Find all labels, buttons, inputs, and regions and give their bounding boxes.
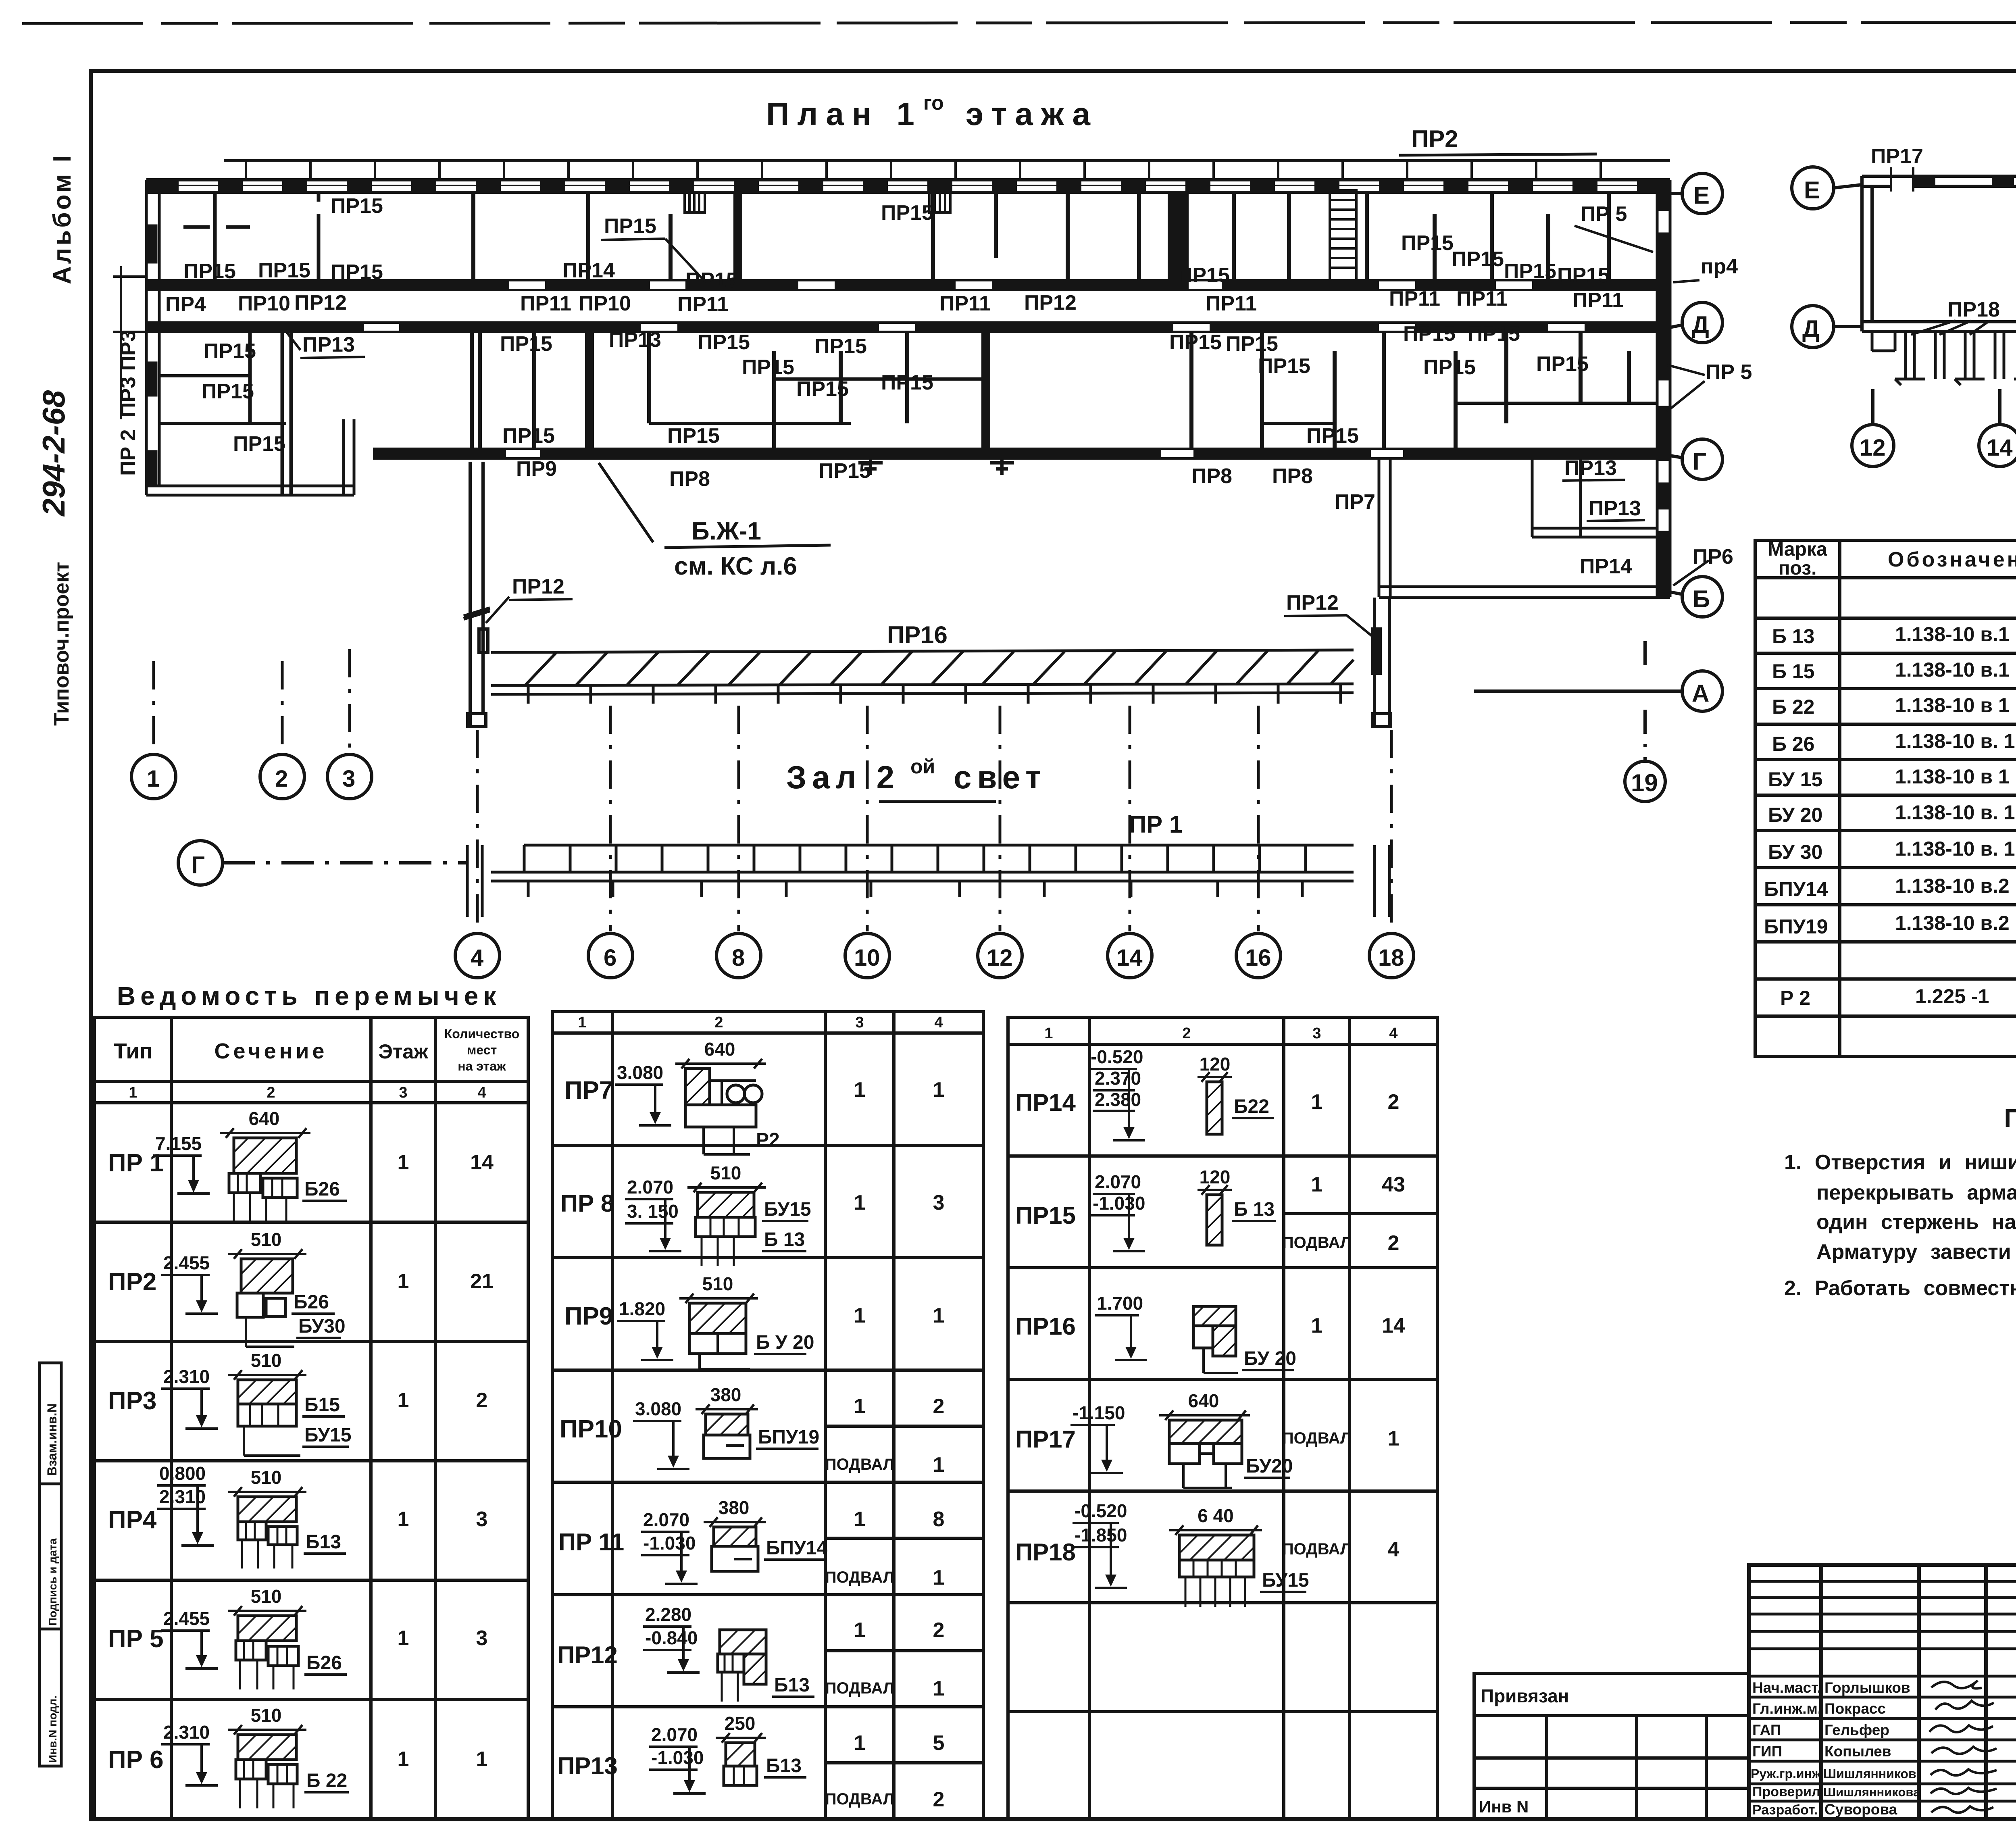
svg-text:Примечания:: Примечания: bbox=[2004, 1104, 2016, 1133]
svg-text:Б 22: Б 22 bbox=[306, 1770, 347, 1791]
svg-text:ПР15: ПР15 bbox=[331, 194, 383, 218]
svg-text:1: 1 bbox=[933, 1453, 945, 1477]
svg-text:ПР11: ПР11 bbox=[1572, 289, 1624, 312]
svg-text:1.138-10 в.1: 1.138-10 в.1 bbox=[1895, 623, 2010, 646]
row PR16 bbox=[1015, 1293, 1405, 1373]
svg-text:Б 26: Б 26 bbox=[1772, 733, 1814, 755]
table2 PR7-PR13 grid bbox=[552, 1012, 983, 1819]
wall left outer bbox=[146, 180, 159, 495]
svg-text:1.138-10 в 1: 1.138-10 в 1 bbox=[1895, 765, 2010, 788]
svg-text:Проверил: Проверил bbox=[1752, 1784, 1820, 1800]
row PR17 bbox=[1015, 1390, 1399, 1488]
basement outer walls bbox=[1862, 176, 2016, 331]
svg-text:БУ15: БУ15 bbox=[1262, 1570, 1309, 1591]
svg-text:ПР13: ПР13 bbox=[1589, 497, 1641, 520]
svg-text:380: 380 bbox=[719, 1497, 750, 1518]
svg-text:мест: мест bbox=[467, 1043, 497, 1057]
svg-text:120: 120 bbox=[1200, 1166, 1231, 1187]
svg-text:ПР14: ПР14 bbox=[562, 259, 615, 282]
row PR12 bbox=[557, 1604, 944, 1702]
svg-text:ПР15: ПР15 bbox=[1468, 322, 1520, 346]
svg-text:4: 4 bbox=[471, 945, 483, 971]
svg-text:ПОДВАЛ: ПОДВАЛ bbox=[825, 1790, 894, 1808]
basement pilasters bbox=[1872, 331, 2016, 385]
svg-text:294-2-68: 294-2-68 bbox=[36, 390, 71, 517]
partitions band1 left block bbox=[183, 192, 319, 280]
labels band2 bbox=[202, 322, 1589, 483]
svg-text:21: 21 bbox=[470, 1270, 494, 1293]
svg-text:2: 2 bbox=[933, 1788, 945, 1811]
svg-text:2.070: 2.070 bbox=[1095, 1171, 1141, 1192]
svg-text:БУ 20: БУ 20 bbox=[1768, 804, 1822, 826]
column cross 12 bbox=[990, 451, 1014, 475]
svg-text:1: 1 bbox=[129, 1084, 137, 1101]
axis circle A bbox=[1474, 671, 1722, 711]
axis circle G left bbox=[178, 841, 468, 885]
svg-text:Горлышков: Горлышков bbox=[1824, 1679, 1910, 1696]
svg-text:2: 2 bbox=[933, 1395, 945, 1418]
svg-text:Шишлянникова: Шишлянникова bbox=[1823, 1785, 1920, 1799]
row PR6 bbox=[108, 1705, 487, 1808]
svg-text:510: 510 bbox=[702, 1273, 733, 1294]
svg-text:ПР15: ПР15 bbox=[796, 377, 849, 401]
svg-text:2.280: 2.280 bbox=[645, 1604, 691, 1625]
svg-text:18: 18 bbox=[1378, 945, 1404, 971]
svg-text:БУ20: БУ20 bbox=[1246, 1456, 1293, 1477]
svg-text:3. 150: 3. 150 bbox=[627, 1201, 679, 1222]
svg-text:ПР11: ПР11 bbox=[1456, 287, 1508, 310]
svg-text:ПР12: ПР12 bbox=[294, 291, 347, 315]
svg-text:ПР15: ПР15 bbox=[1177, 264, 1230, 287]
svg-text:Е: Е bbox=[1693, 182, 1710, 209]
axis circle E basement bbox=[1792, 167, 1862, 209]
svg-text:1.225 -1: 1.225 -1 bbox=[1915, 985, 1989, 1008]
svg-text:8: 8 bbox=[732, 945, 745, 971]
row PR15 bbox=[1015, 1166, 1405, 1255]
svg-text:Обозначение: Обозначение bbox=[1888, 548, 2016, 571]
stair hatch vent B bbox=[929, 192, 950, 212]
svg-text:ПР15: ПР15 bbox=[881, 201, 933, 225]
svg-text:ПР8: ПР8 bbox=[1272, 464, 1313, 488]
svg-text:БУ 30: БУ 30 bbox=[1768, 841, 1822, 863]
svg-text:1.138-10 в.2: 1.138-10 в.2 bbox=[1895, 912, 2010, 934]
svg-text:510: 510 bbox=[251, 1229, 282, 1250]
svg-text:ПР15: ПР15 bbox=[1015, 1202, 1076, 1229]
svg-text:43: 43 bbox=[1382, 1173, 1405, 1196]
row PR1 bbox=[108, 1108, 494, 1222]
svg-text:Покрасс: Покрасс bbox=[1824, 1700, 1886, 1717]
wall left block right edge bbox=[344, 419, 354, 495]
labels left block top bbox=[165, 291, 347, 316]
svg-text:14: 14 bbox=[1382, 1314, 1405, 1337]
row PR4 bbox=[108, 1463, 487, 1568]
svg-text:БПУ14: БПУ14 bbox=[1764, 878, 1828, 900]
svg-text:1: 1 bbox=[398, 1508, 409, 1531]
svg-text:640: 640 bbox=[249, 1108, 280, 1129]
svg-text:1.138-10 в.2: 1.138-10 в.2 bbox=[1895, 875, 2010, 897]
svg-text:ГАП: ГАП bbox=[1752, 1722, 1781, 1738]
svg-text:8: 8 bbox=[933, 1508, 945, 1531]
svg-text:Б13: Б13 bbox=[766, 1755, 802, 1777]
svg-text:1: 1 bbox=[854, 1078, 866, 1102]
svg-text:2: 2 bbox=[1182, 1025, 1191, 1042]
svg-text:ПР17: ПР17 bbox=[1871, 145, 1923, 168]
svg-text:ПР 5: ПР 5 bbox=[108, 1625, 164, 1653]
svg-text:Б 15: Б 15 bbox=[1772, 660, 1814, 683]
svg-text:ПР15: ПР15 bbox=[1258, 354, 1310, 378]
svg-text:1: 1 bbox=[854, 1618, 866, 1642]
spec table Marka poz bbox=[1755, 539, 2016, 1056]
svg-text:ПР12: ПР12 bbox=[557, 1641, 618, 1668]
row PR13 bbox=[557, 1713, 944, 1811]
svg-text:2.370: 2.370 bbox=[1095, 1068, 1141, 1089]
svg-text:Б.Ж-1: Б.Ж-1 bbox=[691, 517, 761, 545]
svg-text:Тип: Тип bbox=[114, 1039, 153, 1063]
svg-text:ПР15: ПР15 bbox=[1403, 322, 1456, 346]
svg-text:3: 3 bbox=[476, 1508, 488, 1531]
svg-text:Количество: Количество bbox=[444, 1027, 520, 1041]
stair hatch vent A bbox=[685, 192, 705, 212]
svg-text:Копылев: Копылев bbox=[1824, 1743, 1891, 1760]
svg-text:Б У 20: Б У 20 bbox=[756, 1332, 814, 1353]
svg-text:510: 510 bbox=[710, 1162, 741, 1183]
partitions band2 left block bbox=[250, 332, 291, 495]
svg-text:ПР15: ПР15 bbox=[604, 215, 656, 238]
svg-text:510: 510 bbox=[251, 1467, 282, 1488]
axis circle D basement bbox=[1792, 306, 1862, 348]
svg-text:ПР15: ПР15 bbox=[1226, 332, 1278, 356]
row PR5 bbox=[108, 1586, 487, 1689]
svg-text:ПОДВАЛ: ПОДВАЛ bbox=[825, 1456, 894, 1473]
svg-text:БУ30: БУ30 bbox=[298, 1316, 346, 1337]
axis circle 14 basement bbox=[1979, 389, 2016, 467]
svg-text:14: 14 bbox=[1987, 435, 2013, 461]
column grid dash lines bottom bbox=[477, 706, 1391, 931]
svg-text:1: 1 bbox=[398, 1151, 409, 1174]
svg-text:Г: Г bbox=[191, 852, 205, 879]
svg-text:-0.520: -0.520 bbox=[1075, 1500, 1127, 1521]
svg-text:ПОДВАЛ: ПОДВАЛ bbox=[825, 1568, 894, 1586]
svg-text:6 40: 6 40 bbox=[1198, 1505, 1234, 1526]
svg-text:1: 1 bbox=[854, 1304, 866, 1327]
beam PR1 band bbox=[467, 845, 1389, 917]
axis circle 19 bbox=[1625, 641, 1665, 802]
signatures squiggles bbox=[1929, 1681, 1997, 1813]
axis circle 6 bbox=[588, 933, 633, 978]
row PR9 bbox=[564, 1273, 944, 1369]
svg-text:Этаж: Этаж bbox=[378, 1040, 428, 1063]
svg-text:3: 3 bbox=[1312, 1025, 1321, 1042]
svg-text:перекрывать арматурой ф 12 А: перекрывать арматурой ф 12 А Ш из расчет… bbox=[1816, 1181, 2016, 1204]
svg-text:2: 2 bbox=[275, 766, 288, 792]
svg-text:ПР 5: ПР 5 bbox=[1706, 360, 1752, 384]
svg-text:Б 22: Б 22 bbox=[1772, 696, 1814, 718]
svg-text:ПР 1: ПР 1 bbox=[1129, 811, 1183, 838]
svg-text:1: 1 bbox=[398, 1627, 409, 1650]
svg-text:-1.850: -1.850 bbox=[1075, 1525, 1127, 1546]
axis circle 2 bbox=[260, 754, 304, 799]
svg-text:ПР15: ПР15 bbox=[685, 269, 738, 292]
svg-text:3.080: 3.080 bbox=[617, 1062, 663, 1083]
svg-text:Б 13: Б 13 bbox=[1772, 625, 1814, 648]
svg-text:2: 2 bbox=[1388, 1090, 1400, 1114]
svg-text:ПР13: ПР13 bbox=[302, 333, 355, 356]
svg-text:2.070: 2.070 bbox=[651, 1724, 698, 1745]
svg-text:Б26: Б26 bbox=[304, 1179, 340, 1200]
left margin rotated captions bbox=[36, 153, 76, 726]
svg-text:3: 3 bbox=[342, 766, 355, 792]
axis circle B bbox=[1670, 577, 1722, 617]
wall corridor bottom D-axis bbox=[146, 323, 1670, 332]
row PR2 bbox=[108, 1229, 494, 1347]
svg-text:БУ 15: БУ 15 bbox=[1768, 768, 1822, 791]
labels block bottom-right bbox=[1335, 490, 1641, 578]
svg-text:ПР15: ПР15 bbox=[818, 459, 871, 483]
svg-text:2.070: 2.070 bbox=[627, 1177, 673, 1198]
svg-text:ПР15: ПР15 bbox=[1401, 231, 1454, 255]
svg-text:1: 1 bbox=[933, 1677, 945, 1700]
svg-text:ПР8: ПР8 bbox=[1191, 464, 1232, 488]
vedomost table grid bbox=[94, 1017, 528, 1819]
svg-text:Гельфер: Гельфер bbox=[1824, 1722, 1889, 1738]
svg-text:ПР12: ПР12 bbox=[512, 575, 564, 598]
svg-text:-1.030: -1.030 bbox=[643, 1533, 696, 1554]
svg-text:ПР7: ПР7 bbox=[564, 1077, 613, 1104]
svg-text:1.138-10 в. 1: 1.138-10 в. 1 bbox=[1895, 837, 2015, 860]
column cross 10 bbox=[858, 451, 883, 475]
wall top outer E-axis bbox=[146, 179, 1670, 194]
svg-text:ПР11: ПР11 bbox=[939, 292, 991, 315]
notes block bbox=[1784, 1104, 2016, 1300]
svg-text:на этаж: на этаж bbox=[458, 1059, 506, 1073]
floor plan 1st floor bbox=[113, 92, 1752, 978]
svg-text:ПР 2: ПР 2 bbox=[117, 429, 140, 476]
svg-text:БПУ19: БПУ19 bbox=[758, 1427, 819, 1448]
svg-text:640: 640 bbox=[1188, 1390, 1219, 1411]
axis circle G right bbox=[1670, 439, 1722, 479]
svg-text:3: 3 bbox=[855, 1014, 864, 1031]
svg-text:7.155: 7.155 bbox=[155, 1133, 202, 1154]
row PR8 bbox=[560, 1162, 944, 1266]
svg-text:ПОДВАЛ: ПОДВАЛ bbox=[825, 1679, 894, 1697]
svg-text:Инв.N подл.: Инв.N подл. bbox=[46, 1696, 59, 1763]
svg-text:ПР15: ПР15 bbox=[258, 259, 310, 282]
svg-text:-1.030: -1.030 bbox=[651, 1747, 704, 1768]
svg-text:1: 1 bbox=[933, 1078, 945, 1102]
svg-text:ПР2: ПР2 bbox=[1411, 125, 1458, 152]
svg-text:го: го bbox=[923, 92, 944, 114]
svg-text:2: 2 bbox=[1388, 1231, 1400, 1255]
row PR18 bbox=[1015, 1500, 1400, 1607]
svg-text:ПР12: ПР12 bbox=[1024, 291, 1077, 315]
svg-text:ПР2: ПР2 bbox=[108, 1268, 156, 1296]
svg-text:ПР6: ПР6 bbox=[1693, 545, 1733, 569]
svg-text:ПР15: ПР15 bbox=[742, 356, 794, 379]
svg-text:Д: Д bbox=[1802, 315, 1820, 342]
svg-text:ПР15: ПР15 bbox=[202, 380, 254, 403]
svg-text:Альбом I: Альбом I bbox=[48, 153, 76, 284]
svg-text:2: 2 bbox=[476, 1389, 488, 1412]
svg-text:Руж.гр.инж: Руж.гр.инж bbox=[1751, 1766, 1821, 1781]
vedomost header bbox=[114, 1027, 520, 1101]
svg-text:1: 1 bbox=[398, 1270, 409, 1293]
svg-text:ПР15: ПР15 bbox=[1504, 260, 1556, 283]
svg-text:ПР 5: ПР 5 bbox=[1581, 202, 1627, 226]
svg-text:1: 1 bbox=[1044, 1025, 1053, 1042]
svg-text:2: 2 bbox=[933, 1618, 945, 1642]
svg-text:ПР15: ПР15 bbox=[667, 424, 720, 448]
privyazan small table bbox=[1474, 1673, 1749, 1819]
axis circle 12 basement bbox=[1852, 389, 1894, 467]
svg-text:ПР13: ПР13 bbox=[557, 1752, 618, 1779]
svg-text:ПР16: ПР16 bbox=[1015, 1313, 1076, 1340]
labels band1 bbox=[183, 194, 1627, 292]
wall corridor top bbox=[146, 280, 1670, 290]
svg-text:12: 12 bbox=[987, 945, 1013, 971]
svg-text:Б13: Б13 bbox=[774, 1675, 810, 1696]
table3 PR14-PR18 grid bbox=[1008, 1017, 1437, 1819]
svg-text:1.138-10 в. 1: 1.138-10 в. 1 bbox=[1895, 801, 2015, 824]
svg-text:1.138-10 в 1: 1.138-10 в 1 bbox=[1895, 694, 2010, 717]
svg-text:1: 1 bbox=[147, 766, 160, 792]
svg-text:640: 640 bbox=[704, 1039, 735, 1060]
svg-text:2.310: 2.310 bbox=[163, 1722, 210, 1743]
svg-text:ПР11: ПР11 bbox=[520, 292, 571, 315]
svg-text:19: 19 bbox=[1631, 769, 1658, 796]
svg-text:3.080: 3.080 bbox=[635, 1398, 681, 1419]
svg-text:ПР15: ПР15 bbox=[881, 371, 933, 394]
svg-text:250: 250 bbox=[725, 1713, 756, 1734]
svg-text:поз.: поз. bbox=[1779, 558, 1817, 579]
svg-text:3: 3 bbox=[399, 1084, 407, 1101]
svg-text:510: 510 bbox=[251, 1705, 282, 1726]
hall right post bbox=[1372, 598, 1391, 727]
svg-text:ПР4: ПР4 bbox=[165, 293, 206, 316]
labels below band2 bbox=[516, 457, 1313, 491]
svg-text:380: 380 bbox=[710, 1384, 741, 1405]
svg-text:16: 16 bbox=[1245, 945, 1271, 971]
svg-text:ПР10: ПР10 bbox=[560, 1415, 622, 1443]
svg-text:ГИП: ГИП bbox=[1752, 1743, 1782, 1760]
svg-text:А: А bbox=[1692, 680, 1709, 707]
svg-text:3: 3 bbox=[476, 1627, 488, 1650]
svg-text:ПР7: ПР7 bbox=[1335, 490, 1375, 514]
svg-text:Арматуру завести за грань: Арматуру завести за грань стены на 200 м… bbox=[1816, 1240, 2016, 1264]
row PR11 bbox=[558, 1497, 944, 1589]
sheet top dashed trim line bbox=[22, 22, 2016, 23]
svg-text:ПР15: ПР15 bbox=[1169, 331, 1222, 354]
svg-text:ПР10: ПР10 bbox=[238, 292, 290, 315]
svg-text:1: 1 bbox=[398, 1389, 409, 1412]
svg-text:Инв N: Инв N bbox=[1479, 1797, 1529, 1816]
svg-text:1.820: 1.820 bbox=[619, 1298, 665, 1319]
svg-text:510: 510 bbox=[251, 1350, 282, 1371]
svg-text:Взам.инв.N: Взам.инв.N bbox=[45, 1403, 59, 1476]
svg-text:Типовоч.проект: Типовоч.проект bbox=[50, 562, 73, 726]
svg-text:ПР15: ПР15 bbox=[814, 335, 867, 358]
svg-text:Нач.маст.: Нач.маст. bbox=[1752, 1679, 1821, 1696]
svg-text:ПР14: ПР14 bbox=[1015, 1089, 1076, 1116]
svg-text:БУ15: БУ15 bbox=[304, 1425, 352, 1446]
svg-text:ПР14: ПР14 bbox=[1580, 555, 1632, 578]
staircase treads bbox=[1330, 190, 1356, 282]
left dimension ticks bbox=[113, 266, 146, 419]
svg-text:1: 1 bbox=[854, 1508, 866, 1531]
partitions band1 main bbox=[473, 192, 1609, 280]
svg-text:1: 1 bbox=[1388, 1427, 1400, 1450]
svg-text:120: 120 bbox=[1200, 1054, 1231, 1075]
wire PR2 underline bbox=[1399, 154, 1597, 155]
svg-text:Р 2: Р 2 bbox=[1780, 987, 1810, 1009]
svg-text:ПР8: ПР8 bbox=[669, 467, 710, 491]
axis circle 12 bbox=[978, 933, 1022, 978]
svg-text:2: 2 bbox=[714, 1014, 723, 1031]
svg-text:Р2: Р2 bbox=[756, 1129, 780, 1151]
svg-text:ПР15: ПР15 bbox=[1423, 356, 1476, 379]
svg-text:ПР9: ПР9 bbox=[516, 457, 557, 481]
svg-text:1. Отверстия и ниши шириной: 1. Отверстия и ниши шириной до 600 мм bbox=[1784, 1151, 2016, 1174]
svg-text:один стержень на каждые 12: один стержень на каждые 120 мм ширины ст… bbox=[1816, 1210, 2016, 1234]
block bottom-right walls bbox=[1379, 460, 1670, 598]
wall right outer bbox=[1657, 180, 1670, 597]
svg-text:ПР18: ПР18 bbox=[1947, 298, 2000, 321]
svg-text:0.800: 0.800 bbox=[159, 1463, 206, 1484]
svg-text:ПР13: ПР13 bbox=[609, 328, 661, 352]
svg-text:1: 1 bbox=[1311, 1090, 1323, 1114]
svg-text:ПР10: ПР10 bbox=[579, 292, 631, 315]
svg-text:2: 2 bbox=[267, 1084, 275, 1101]
svg-text:1: 1 bbox=[1311, 1314, 1323, 1337]
beam PR16 band bbox=[491, 650, 1354, 704]
svg-text:1: 1 bbox=[854, 1191, 866, 1214]
axis circle 14 bbox=[1108, 933, 1152, 978]
svg-text:ПР15: ПР15 bbox=[1306, 424, 1359, 448]
axis circle 1 bbox=[131, 754, 176, 799]
svg-text:510: 510 bbox=[251, 1586, 282, 1607]
svg-text:ПР12: ПР12 bbox=[1286, 591, 1339, 614]
svg-text:Г: Г bbox=[1693, 448, 1706, 475]
svg-text:2. Работать совместно с пла: 2. Работать совместно с планами этажей. bbox=[1784, 1277, 2016, 1300]
svg-text:1.138-10 в. 1: 1.138-10 в. 1 bbox=[1895, 730, 2015, 752]
svg-text:ПР4: ПР4 bbox=[108, 1506, 157, 1534]
svg-text:Сечение: Сечение bbox=[215, 1039, 328, 1063]
svg-text:12: 12 bbox=[1860, 435, 1886, 461]
svg-text:1: 1 bbox=[578, 1014, 586, 1031]
svg-text:БПУ14: БПУ14 bbox=[766, 1537, 828, 1559]
basement plan bbox=[1792, 92, 2016, 467]
title block main bbox=[1749, 1565, 2016, 1819]
axis circle 16 bbox=[1236, 933, 1281, 978]
svg-text:-1.030: -1.030 bbox=[1093, 1193, 1145, 1214]
row PR14 bbox=[1015, 1046, 1399, 1140]
svg-text:ПР11: ПР11 bbox=[677, 293, 729, 316]
svg-text:4: 4 bbox=[1388, 1538, 1400, 1561]
svg-text:2.310: 2.310 bbox=[163, 1366, 210, 1387]
axis circle E bbox=[1670, 173, 1722, 214]
svg-text:Б26: Б26 bbox=[294, 1291, 329, 1313]
svg-text:Зал 2: Зал 2 bbox=[786, 759, 900, 795]
svg-text:ПР3: ПР3 bbox=[108, 1387, 156, 1415]
row PR10 bbox=[560, 1384, 944, 1477]
partitions band2 main bbox=[472, 332, 1629, 449]
axis circle D bbox=[1670, 302, 1722, 343]
hall left post bbox=[464, 462, 490, 727]
svg-text:14: 14 bbox=[1116, 945, 1143, 971]
svg-text:10: 10 bbox=[854, 945, 880, 971]
row PR3 bbox=[108, 1350, 487, 1456]
svg-text:3: 3 bbox=[933, 1191, 945, 1214]
svg-text:пр4: пр4 bbox=[1701, 255, 1738, 278]
